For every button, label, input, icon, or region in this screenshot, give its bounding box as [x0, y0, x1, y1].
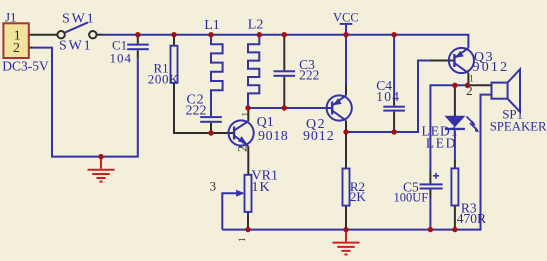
svg-text:100UF: 100UF: [394, 190, 429, 204]
svg-text:9018: 9018: [258, 129, 288, 144]
svg-text:2K: 2K: [350, 189, 367, 204]
svg-text:222: 222: [186, 103, 207, 118]
svg-text:1K: 1K: [252, 180, 271, 195]
svg-text:VCC: VCC: [333, 10, 359, 24]
svg-text:104: 104: [376, 89, 400, 104]
svg-text:LED: LED: [426, 135, 457, 150]
svg-text:470R: 470R: [457, 211, 486, 226]
svg-text:2: 2: [13, 41, 20, 56]
svg-text:DC3-5V: DC3-5V: [2, 59, 49, 74]
svg-text:L2: L2: [248, 17, 264, 32]
svg-text:SW1: SW1: [62, 11, 95, 26]
svg-text:1: 1: [241, 112, 251, 117]
svg-text:9012: 9012: [473, 60, 510, 75]
svg-text:3: 3: [210, 179, 217, 194]
svg-text:222: 222: [299, 68, 319, 83]
svg-text:104: 104: [110, 50, 133, 65]
svg-text:9012: 9012: [303, 129, 335, 144]
svg-text:SPEAKER: SPEAKER: [490, 120, 547, 134]
svg-text:200K: 200K: [148, 71, 179, 86]
svg-text:SW1: SW1: [59, 38, 92, 53]
svg-text:2: 2: [466, 83, 473, 98]
svg-text:Q1: Q1: [257, 115, 274, 130]
svg-text:2: 2: [234, 146, 249, 153]
svg-text:L1: L1: [204, 18, 220, 33]
svg-text:J1: J1: [5, 10, 17, 25]
svg-text:1: 1: [469, 73, 474, 83]
svg-text:1: 1: [237, 238, 247, 243]
